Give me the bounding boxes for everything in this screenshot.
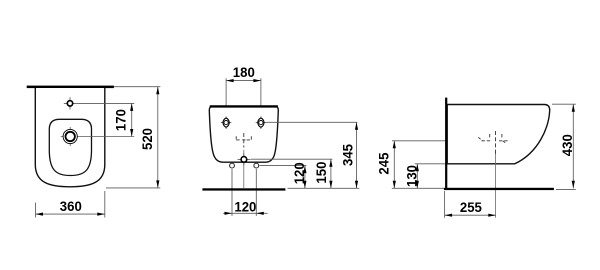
dimension line 120 (right of front view) [304, 166, 306, 189]
mounting hole left (oblong) [223, 118, 229, 127]
dimension line 255 [445, 214, 496, 216]
bidet inner bowl (plan) [49, 119, 91, 175]
extension line floor level right of front view [288, 187, 360, 189]
extension line right fixing hole (120 bottom) [255, 169, 257, 216]
extension line bottom (520) [106, 187, 160, 189]
leader from fixing holes to 120 dim [260, 165, 307, 167]
floor bar (front view) [202, 188, 285, 190]
dimension line 170 [131, 103, 133, 136]
fixing hole left (front) [230, 163, 235, 168]
extension line top (430) [552, 103, 576, 105]
svg-text:120: 120 [291, 162, 307, 184]
svg-text:430: 430 [559, 134, 575, 156]
wall (top bar, plan view) [27, 86, 114, 89]
hidden inlet diagonal ticks [478, 137, 506, 143]
centerline ticks of tap hole [64, 97, 76, 109]
mounting hole right (oblong) [258, 118, 264, 127]
hidden drain centerline (dashed vertical) [495, 131, 497, 154]
centerline ticks of drain hole [61, 127, 80, 146]
svg-text:170: 170 [113, 109, 129, 131]
extension line left mounting hole [225, 78, 227, 117]
bidet body (side view) [447, 105, 550, 164]
svg-text:360: 360 [60, 198, 82, 214]
extension line left (360) [35, 203, 37, 218]
svg-text:150: 150 [313, 161, 329, 183]
svg-text:120: 120 [234, 198, 256, 214]
floor bar (side view) [444, 188, 554, 190]
dimension line 520 [157, 87, 159, 188]
mounting hole left inner circle [224, 121, 228, 125]
svg-text:345: 345 [340, 144, 356, 166]
rim top edge (thick) [210, 105, 278, 107]
svg-text:520: 520 [139, 128, 155, 150]
centerline through drain (front) [243, 150, 245, 188]
hidden water inlet (dashed) front [243, 133, 245, 148]
leader from drain to 150 dim [251, 158, 333, 160]
bidet outer outline (plan) [35, 88, 105, 187]
extension line left fixing hole (120 bottom) [231, 169, 233, 216]
drain hole inner ring (plan) [66, 132, 75, 141]
leader line 245 (from hidden inlet level through wall) [392, 140, 481, 142]
dimension line 120 bottom [223, 212, 267, 214]
drain hole (front view) [241, 157, 247, 163]
wall bar (side view) [445, 98, 447, 190]
svg-text:130: 130 [404, 165, 420, 187]
leader from drain hole to 170 dim [80, 136, 135, 138]
dimension line 360 [36, 213, 105, 215]
mounting hole right inner circle [259, 121, 263, 125]
centerline ticks right mounting hole [256, 116, 266, 129]
hidden water inlet (dashed) side [482, 134, 510, 141]
drain hole outer circle (plan) [63, 129, 77, 143]
fixing hole right (front) [254, 163, 259, 168]
extension line top (520) [114, 86, 160, 88]
dimension line 130 [416, 164, 418, 189]
svg-text:245: 245 [376, 152, 392, 174]
dimension line 430 [572, 104, 574, 188]
dimension line 150 [330, 159, 332, 188]
svg-text:180: 180 [233, 64, 255, 80]
leader from right mounting hole to 345 dim [266, 121, 357, 123]
leader line 130 (bottom edge extended through wall) [415, 163, 446, 165]
leader from tap hole to 170 dim [76, 102, 134, 104]
dimension line 245 [393, 141, 395, 189]
centerline ticks left mounting hole [221, 116, 231, 129]
centerline ticks drain (front) [238, 153, 251, 165]
bidet body (front view) [209, 106, 278, 162]
centerline / extension for 255 right (drain axis) [495, 152, 497, 218]
extension line floor level left of side view [392, 187, 444, 189]
extension line bottom (430) [556, 188, 576, 190]
extension line right (360) [104, 191, 106, 218]
svg-text:255: 255 [460, 199, 482, 215]
dimension line 180 [226, 80, 261, 82]
extension line for 255 left (wall face) [444, 191, 446, 218]
dimension line 345 [356, 122, 358, 188]
tap hole (small circle, plan) [67, 101, 72, 106]
extension line right mounting hole [260, 78, 262, 117]
